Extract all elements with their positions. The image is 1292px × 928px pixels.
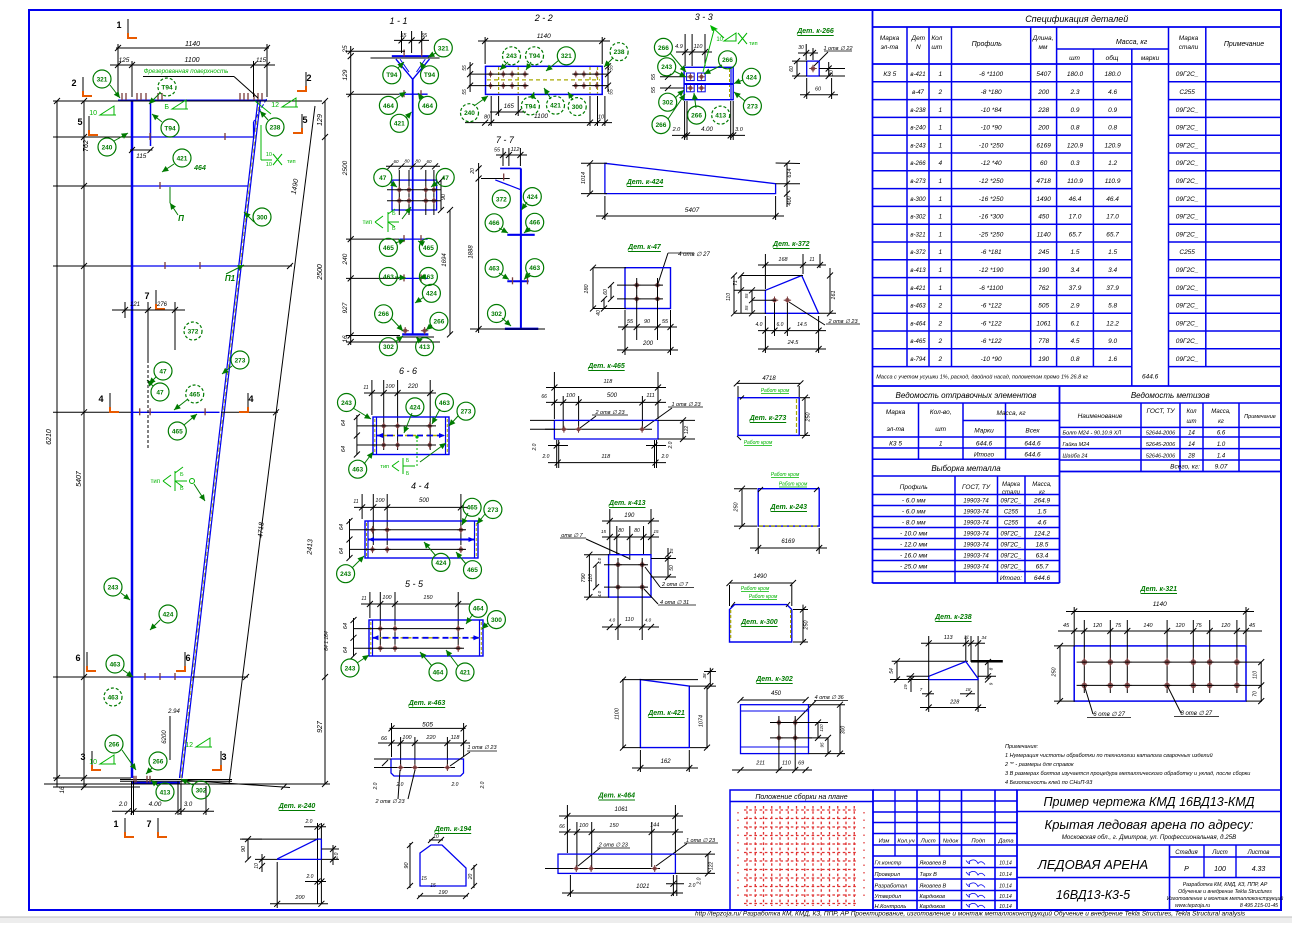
svg-text:3.0: 3.0 [184, 802, 193, 808]
svg-text:16: 16 [342, 335, 349, 343]
svg-text:37.9: 37.9 [1106, 285, 1119, 292]
svg-text:211: 211 [755, 761, 765, 767]
svg-text:273: 273 [461, 409, 472, 416]
svg-text:424: 424 [746, 75, 757, 82]
svg-text:3.4: 3.4 [1108, 267, 1117, 274]
svg-text:4: 4 [98, 394, 103, 404]
svg-text:Дет. к-240: Дет. к-240 [278, 803, 316, 810]
svg-text:250: 250 [1052, 666, 1058, 677]
svg-text:273: 273 [487, 507, 498, 514]
svg-text:55: 55 [662, 319, 669, 325]
svg-text:09Г2С_: 09Г2С_ [1176, 285, 1199, 292]
svg-text:450: 450 [771, 691, 782, 697]
svg-text:Марка: Марка [880, 35, 900, 42]
svg-text:464: 464 [433, 669, 444, 676]
svg-text:09Г2С_: 09Г2С_ [1176, 160, 1199, 167]
svg-text:19903-74: 19903-74 [963, 532, 989, 538]
svg-text:10.14: 10.14 [999, 904, 1012, 910]
svg-text:100: 100 [375, 498, 385, 504]
svg-text:1.4: 1.4 [1217, 454, 1226, 460]
svg-text:0.9: 0.9 [1108, 107, 1117, 114]
svg-text:276: 276 [156, 302, 168, 308]
svg-text:Итого:: Итого: [1000, 575, 1022, 582]
svg-text:тип: тип [363, 220, 372, 226]
svg-text:112: 112 [511, 147, 520, 153]
svg-text:Яковлев В: Яковлев В [919, 861, 947, 867]
svg-text:90: 90 [644, 319, 651, 325]
svg-text:ГОСТ, ТУ: ГОСТ, ТУ [962, 484, 991, 491]
svg-text:7: 7 [144, 291, 149, 301]
svg-text:55: 55 [400, 33, 407, 39]
svg-text:в-463: в-463 [910, 304, 926, 310]
svg-text:в-300: в-300 [910, 197, 926, 203]
svg-text:1100: 1100 [534, 113, 548, 120]
svg-text:Всех: Всех [1025, 428, 1040, 435]
svg-text:Дет. к-413: Дет. к-413 [608, 500, 646, 507]
svg-text:243: 243 [340, 571, 351, 578]
svg-text:122: 122 [684, 426, 690, 435]
svg-text:0.8: 0.8 [1108, 125, 1117, 132]
svg-text:1140: 1140 [1037, 231, 1051, 238]
svg-text:09Г2С_: 09Г2С_ [1176, 196, 1199, 203]
svg-text:6.0: 6.0 [777, 322, 784, 328]
svg-text:2: 2 [937, 338, 942, 345]
svg-text:52646-2006: 52646-2006 [1146, 454, 1176, 460]
svg-text:413: 413 [715, 113, 726, 120]
svg-text:150: 150 [423, 595, 433, 601]
svg-text:К3 5: К3 5 [889, 441, 902, 448]
svg-text:Масса, кг: Масса, кг [996, 410, 1026, 417]
svg-text:18.5: 18.5 [1036, 542, 1049, 549]
svg-text:1: 1 [938, 196, 942, 203]
svg-text:927: 927 [317, 720, 324, 733]
svg-text:424: 424 [527, 194, 538, 201]
svg-text:19903-74: 19903-74 [963, 510, 989, 516]
svg-text:Т94: Т94 [164, 125, 176, 132]
svg-text:-12 *250: -12 *250 [979, 178, 1004, 185]
svg-text:09Г2С_: 09Г2С_ [1001, 532, 1022, 538]
svg-text:100: 100 [385, 384, 395, 390]
svg-text:121: 121 [130, 302, 140, 308]
svg-text:1: 1 [113, 819, 118, 829]
svg-text:450: 450 [1038, 214, 1049, 221]
svg-text:-6 *122: -6 *122 [981, 338, 1002, 345]
svg-text:2: 2 [937, 89, 942, 96]
svg-text:http //tepzoja.ru/ Разработка: http //tepzoja.ru/ Разработка КМ, КМД, К… [695, 910, 1246, 918]
svg-text:Подп: Подп [971, 839, 986, 845]
svg-text:90: 90 [241, 845, 247, 852]
svg-text:2.0: 2.0 [697, 877, 703, 885]
svg-text:614: 614 [787, 168, 793, 177]
svg-text:1: 1 [938, 71, 942, 78]
svg-text:372: 372 [496, 196, 507, 203]
svg-text:266: 266 [722, 57, 733, 64]
svg-text:372: 372 [188, 328, 199, 335]
svg-text:238: 238 [614, 49, 625, 56]
svg-text:463: 463 [352, 467, 363, 474]
svg-text:6200: 6200 [162, 730, 168, 744]
svg-text:38: 38 [702, 673, 707, 679]
svg-text:П1: П1 [225, 274, 236, 283]
svg-text:-12 *40: -12 *40 [981, 160, 1002, 167]
svg-text:220: 220 [425, 735, 436, 741]
svg-text:Дет. к-300: Дет. к-300 [740, 619, 778, 626]
svg-text:2.0: 2.0 [668, 441, 674, 449]
svg-text:Гайка М24: Гайка М24 [1063, 441, 1090, 448]
svg-text:Стадия: Стадия [1175, 850, 1198, 856]
svg-text:Изготовление и монтаж металлок: Изготовление и монтаж металлоконструкций [1167, 895, 1284, 902]
svg-text:180: 180 [584, 283, 590, 293]
svg-text:413: 413 [160, 789, 171, 796]
svg-text:65.7: 65.7 [1069, 231, 1082, 238]
svg-text:3: 3 [221, 752, 226, 762]
svg-text:55: 55 [609, 65, 615, 71]
svg-text:тип: тип [749, 41, 758, 47]
svg-text:Марка: Марка [1179, 35, 1199, 42]
svg-text:1140: 1140 [185, 41, 200, 48]
svg-text:-10 *90: -10 *90 [981, 356, 1002, 363]
svg-text:12: 12 [271, 102, 279, 109]
svg-text:09Г2С_: 09Г2С_ [1176, 107, 1199, 114]
svg-text:150: 150 [609, 823, 619, 829]
svg-text:46.4: 46.4 [1069, 196, 1082, 203]
svg-text:1: 1 [938, 125, 942, 132]
svg-text:2.3: 2.3 [1069, 89, 1079, 96]
svg-text:55: 55 [651, 73, 657, 80]
svg-text:1 - 1: 1 - 1 [389, 16, 407, 26]
svg-text:6 отв ∅ 27: 6 отв ∅ 27 [1093, 711, 1125, 718]
svg-text:120: 120 [1093, 623, 1103, 629]
svg-text:115: 115 [136, 153, 147, 160]
svg-text:4718: 4718 [1036, 178, 1051, 185]
svg-text:4.0: 4.0 [597, 557, 602, 564]
svg-text:2500: 2500 [317, 264, 324, 281]
svg-text:Обучение и внедрение Tekla Str: Обучение и внедрение Tekla Structures [1178, 889, 1272, 895]
svg-text:0.9: 0.9 [1070, 107, 1079, 114]
svg-text:тип: тип [151, 479, 160, 485]
svg-text:10.14: 10.14 [999, 884, 1012, 890]
svg-text:190: 190 [438, 890, 448, 896]
svg-text:Б: Б [392, 211, 396, 217]
svg-text:4: 4 [938, 160, 942, 167]
svg-text:3.0: 3.0 [735, 127, 744, 133]
svg-text:-10 *250: -10 *250 [979, 142, 1004, 149]
svg-text:19903-74: 19903-74 [963, 565, 989, 571]
svg-text:463: 463 [439, 400, 450, 407]
svg-text:266: 266 [378, 311, 389, 318]
svg-text:-16 *250: -16 *250 [979, 196, 1004, 203]
svg-text:20: 20 [468, 874, 474, 881]
svg-text:37.9: 37.9 [1069, 285, 1082, 292]
svg-text:К3 5: К3 5 [883, 71, 896, 78]
svg-text:11: 11 [809, 257, 814, 263]
svg-text:Масса с учетом усушки 1%, расх: Масса с учетом усушки 1%, расход, двойно… [876, 374, 1088, 381]
svg-text:0.8: 0.8 [1070, 125, 1079, 132]
svg-text:3 - 3: 3 - 3 [695, 12, 713, 22]
svg-text:424: 424 [435, 560, 446, 567]
svg-text:465: 465 [467, 505, 478, 512]
svg-text:10: 10 [89, 110, 97, 117]
svg-text:2.0: 2.0 [451, 782, 459, 788]
svg-text:243: 243 [108, 584, 119, 591]
svg-text:1.5: 1.5 [1108, 249, 1117, 256]
svg-text:14: 14 [1188, 431, 1195, 437]
svg-text:5407: 5407 [1036, 71, 1051, 78]
svg-text:190: 190 [624, 513, 635, 519]
svg-text:9.07: 9.07 [1215, 464, 1228, 471]
svg-text:2 '*' - размеры для справок: 2 '*' - размеры для справок [1004, 762, 1074, 768]
svg-text:Дет. к-266: Дет. к-266 [796, 28, 834, 35]
svg-text:2.0: 2.0 [532, 443, 538, 451]
svg-text:80: 80 [634, 528, 640, 534]
svg-text:10: 10 [716, 37, 723, 43]
svg-text:200: 200 [1037, 125, 1049, 132]
svg-text:2413: 2413 [307, 539, 315, 556]
svg-text:90: 90 [404, 862, 410, 869]
svg-text:30: 30 [798, 45, 804, 51]
svg-text:250: 250 [806, 411, 812, 422]
svg-text:в-421: в-421 [910, 286, 925, 292]
svg-text:64: 64 [339, 548, 345, 554]
svg-text:464: 464 [193, 165, 206, 172]
svg-text:Т94: Т94 [525, 103, 537, 110]
svg-text:-6 *1100: -6 *1100 [979, 71, 1003, 78]
svg-text:шт: шт [935, 426, 946, 433]
svg-text:52644-2006: 52644-2006 [1146, 431, 1176, 437]
svg-text:1100: 1100 [184, 57, 199, 64]
svg-text:в-794: в-794 [910, 357, 926, 363]
svg-text:Б: Б [164, 104, 169, 111]
svg-text:6 - 6: 6 - 6 [399, 366, 417, 376]
svg-text:245: 245 [1037, 249, 1049, 256]
svg-text:60: 60 [426, 159, 432, 164]
svg-text:14: 14 [1188, 442, 1195, 448]
svg-text:0.8: 0.8 [1070, 356, 1079, 363]
svg-text:1888: 1888 [469, 245, 475, 259]
svg-text:2.0: 2.0 [672, 127, 682, 133]
svg-text:47: 47 [156, 389, 164, 396]
svg-text:190: 190 [1038, 267, 1049, 274]
svg-text:Яковлев В: Яковлев В [919, 884, 947, 890]
svg-text:50: 50 [669, 565, 675, 571]
svg-text:20: 20 [470, 168, 476, 175]
svg-text:644.6: 644.6 [1034, 575, 1051, 582]
svg-text:424: 424 [426, 291, 437, 298]
svg-text:465: 465 [467, 567, 478, 574]
svg-text:Дет. к-321: Дет. к-321 [1140, 586, 1178, 593]
svg-text:2.0: 2.0 [306, 874, 314, 880]
svg-text:1: 1 [939, 441, 943, 448]
svg-text:2.9: 2.9 [1069, 303, 1079, 310]
svg-text:762: 762 [1038, 285, 1049, 292]
svg-text:238: 238 [270, 124, 281, 131]
svg-text:2: 2 [71, 78, 76, 88]
svg-text:64: 64 [341, 446, 347, 452]
svg-text:927: 927 [342, 302, 349, 313]
svg-text:7 - 7: 7 - 7 [496, 135, 515, 145]
svg-text:300: 300 [572, 104, 583, 111]
svg-text:1.6: 1.6 [1108, 356, 1117, 363]
svg-text:55: 55 [744, 305, 749, 311]
svg-text:40: 40 [596, 310, 602, 316]
svg-text:463: 463 [489, 266, 500, 273]
svg-text:- 12.0 мм: - 12.0 мм [900, 542, 928, 549]
svg-text:4.9: 4.9 [675, 44, 683, 50]
svg-text:264.9: 264.9 [1033, 498, 1051, 505]
svg-text:2.0: 2.0 [480, 781, 486, 789]
svg-text:1: 1 [938, 142, 942, 149]
svg-text:-6 *122: -6 *122 [981, 303, 1002, 310]
svg-text:4.0: 4.0 [597, 590, 602, 597]
svg-text:120: 120 [1176, 623, 1186, 629]
svg-text:1140: 1140 [1153, 601, 1167, 608]
svg-text:Кардюков: Кардюков [920, 894, 946, 900]
svg-text:118: 118 [601, 454, 611, 460]
svg-text:500: 500 [607, 393, 618, 399]
svg-text:12.2: 12.2 [1106, 320, 1119, 327]
svg-text:Дет. к-238: Дет. к-238 [934, 614, 972, 621]
svg-text:15: 15 [421, 876, 427, 882]
svg-text:505: 505 [1038, 303, 1049, 310]
svg-text:300: 300 [257, 214, 268, 221]
svg-text:122: 122 [709, 862, 715, 871]
svg-text:466: 466 [489, 220, 500, 227]
svg-text:в-465: в-465 [910, 339, 926, 345]
svg-text:16: 16 [60, 786, 66, 793]
svg-text:Лист: Лист [920, 839, 936, 845]
svg-text:3 В размерах болтов изучается: 3 В размерах болтов изучается процедура … [1005, 771, 1250, 777]
svg-text:75: 75 [1196, 623, 1203, 629]
svg-text:63.4: 63.4 [1036, 553, 1049, 560]
svg-text:Масса, кг: Масса, кг [1116, 39, 1148, 46]
svg-text:273: 273 [747, 103, 758, 110]
svg-text:Наименование: Наименование [1078, 413, 1123, 420]
svg-text:11: 11 [353, 499, 358, 505]
svg-text:243: 243 [345, 665, 356, 672]
svg-text:2 отв ∅ 23: 2 отв ∅ 23 [374, 799, 405, 805]
svg-text:2.0: 2.0 [542, 454, 550, 460]
svg-text:19: 19 [903, 684, 908, 690]
svg-text:в-413: в-413 [910, 268, 926, 274]
svg-text:Т94: Т94 [386, 72, 398, 79]
svg-text:302: 302 [196, 787, 207, 794]
svg-text:19903-74: 19903-74 [963, 521, 989, 527]
svg-text:413: 413 [419, 344, 430, 351]
svg-text:Кол: Кол [1186, 409, 1197, 415]
svg-text:Утвердил: Утвердил [874, 894, 902, 900]
svg-text:464: 464 [473, 606, 484, 613]
svg-text:64 1 164: 64 1 164 [324, 631, 330, 651]
svg-text:10: 10 [433, 834, 439, 840]
svg-text:Б: Б [392, 226, 396, 232]
svg-text:1 отв ∅ 23: 1 отв ∅ 23 [467, 745, 497, 751]
svg-text:110: 110 [782, 761, 792, 767]
svg-text:302: 302 [491, 311, 502, 318]
svg-text:65.7: 65.7 [1036, 564, 1049, 571]
svg-text:-16 *300: -16 *300 [979, 214, 1004, 221]
svg-text:1: 1 [938, 285, 942, 292]
svg-text:129: 129 [342, 69, 349, 80]
svg-text:95: 95 [819, 742, 824, 748]
svg-text:С255: С255 [1004, 521, 1019, 527]
svg-text:общ: общ [1106, 54, 1119, 62]
svg-text:тип: тип [380, 464, 389, 470]
svg-text:кг: кг [1218, 419, 1224, 425]
svg-text:80: 80 [484, 115, 491, 121]
svg-text:162: 162 [661, 759, 672, 765]
svg-text:шт: шт [1069, 55, 1080, 62]
svg-text:2.0: 2.0 [118, 802, 128, 808]
svg-text:09Г2С_: 09Г2С_ [1176, 231, 1199, 238]
svg-text:09Г2С_: 09Г2С_ [1176, 303, 1199, 310]
svg-text:250: 250 [804, 619, 810, 630]
svg-text:-8 *180: -8 *180 [981, 89, 1002, 96]
svg-text:Дет. к-47: Дет. к-47 [627, 244, 662, 251]
svg-text:463: 463 [529, 265, 540, 272]
svg-text:09Г2С_: 09Г2С_ [1001, 543, 1022, 549]
svg-text:300: 300 [491, 617, 502, 624]
svg-text:в-464: в-464 [910, 321, 926, 327]
svg-text:10: 10 [254, 863, 260, 869]
svg-text:Фрезерованная поверхность: Фрезерованная поверхность [144, 68, 229, 75]
svg-text:Дет. к-465: Дет. к-465 [587, 363, 625, 370]
svg-text:2.0: 2.0 [305, 819, 313, 825]
svg-text:шт: шт [931, 44, 942, 51]
svg-text:1074: 1074 [699, 715, 705, 727]
svg-text:Дет. к-302: Дет. к-302 [755, 676, 793, 683]
svg-text:Марка: Марка [1002, 482, 1021, 488]
svg-text:302: 302 [383, 344, 394, 351]
svg-text:64: 64 [343, 647, 349, 653]
svg-text:465: 465 [189, 391, 200, 398]
svg-text:466: 466 [529, 220, 540, 227]
svg-text:55: 55 [627, 319, 634, 325]
svg-text:1: 1 [938, 214, 942, 221]
svg-text:19903-74: 19903-74 [963, 543, 989, 549]
svg-text:мм: мм [1039, 44, 1048, 51]
svg-text:161: 161 [831, 290, 837, 299]
svg-text:Марки: Марки [974, 428, 994, 435]
svg-text:644.6: 644.6 [976, 441, 993, 448]
svg-text:140: 140 [1143, 623, 1153, 629]
svg-text:55: 55 [651, 86, 657, 93]
svg-text:2.0: 2.0 [373, 782, 379, 790]
svg-text:400: 400 [787, 195, 793, 205]
svg-text:Положение сборки на плане: Положение сборки на плане [755, 793, 847, 801]
svg-text:110: 110 [726, 293, 732, 301]
svg-text:118: 118 [451, 735, 461, 741]
svg-text:5: 5 [302, 115, 307, 125]
svg-text:Ведомость метизов: Ведомость метизов [1131, 391, 1210, 400]
svg-text:266: 266 [433, 319, 444, 326]
svg-text:Дет. к-194: Дет. к-194 [434, 826, 472, 833]
svg-text:в-243: в-243 [910, 143, 926, 149]
svg-text:Выборка металла: Выборка металла [931, 464, 1001, 473]
svg-text:1 Нумерация чистоты обработки: 1 Нумерация чистоты обработки по техноло… [1005, 752, 1213, 759]
svg-text:266: 266 [656, 122, 667, 129]
svg-text:7: 7 [146, 819, 151, 829]
svg-text:10: 10 [266, 162, 272, 168]
svg-text:52645-2006: 52645-2006 [1146, 442, 1176, 448]
svg-text:Изм: Изм [879, 839, 890, 845]
svg-text:6.6: 6.6 [1217, 431, 1226, 437]
svg-text:Профиль: Профиль [900, 484, 929, 491]
svg-text:10.14: 10.14 [999, 861, 1012, 867]
svg-text:55: 55 [609, 89, 615, 95]
svg-text:180.0: 180.0 [1104, 71, 1121, 78]
svg-text:Пример чертежа КМД 16ВД13-КМД: Пример чертежа КМД 16ВД13-КМД [1044, 795, 1255, 809]
svg-text:Примечание: Примечание [1224, 41, 1264, 48]
